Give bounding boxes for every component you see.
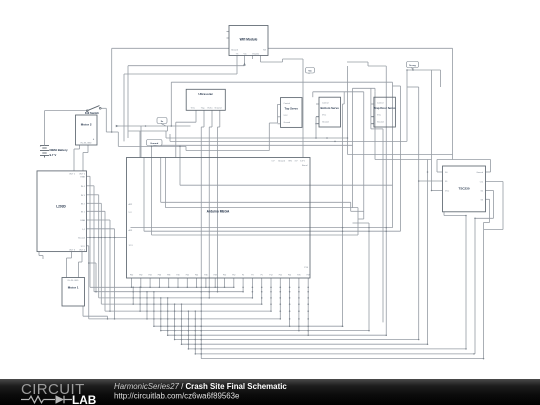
svg-text:P30: P30 (130, 275, 133, 277)
svg-text:Control: Control (322, 101, 329, 104)
svg-text:P52: P52 (232, 275, 235, 277)
svg-text:Ground: Ground (322, 122, 329, 124)
svg-text:Trap Door Servo: Trap Door Servo (374, 106, 396, 110)
svg-text:P34: P34 (148, 275, 151, 277)
svg-text:P28: P28 (307, 275, 310, 277)
svg-text:Barrel: Barrel (302, 164, 308, 167)
svg-text:P38: P38 (167, 275, 170, 277)
svg-text:Echo: Echo (208, 108, 214, 110)
svg-text:Ground: Ground (78, 237, 86, 240)
svg-text:Ground: Ground (215, 107, 223, 110)
svg-text:Wifi Module: Wifi Module (240, 38, 258, 42)
svg-text:3.3 V: 3.3 V (300, 160, 305, 162)
svg-text:12 V: 12 V (81, 246, 86, 248)
svg-text:P48: P48 (214, 275, 217, 277)
svg-text:P36: P36 (158, 275, 161, 277)
svg-text:Bottom Servo: Bottom Servo (321, 106, 340, 110)
svg-text:NiMH Battery: NiMH Battery (50, 148, 69, 152)
svg-text:P2: P2 (242, 275, 244, 277)
svg-text:P12: P12 (269, 275, 272, 277)
svg-text:VCC: VCC (191, 108, 196, 110)
svg-text:Ground: Ground (150, 143, 159, 145)
svg-text:TSC230: TSC230 (458, 186, 469, 190)
svg-text:VCC: VCC (377, 115, 382, 117)
svg-text:P26: P26 (297, 275, 300, 277)
svg-text:Arduino MEGA: Arduino MEGA (207, 210, 230, 214)
svg-text:ENA: ENA (81, 219, 86, 222)
svg-text:P44: P44 (195, 275, 198, 277)
svg-text:P24: P24 (288, 275, 291, 277)
svg-text:VIN: VIN (288, 160, 292, 162)
svg-text:Control: Control (284, 102, 291, 105)
svg-text:Motor 1: Motor 1 (68, 286, 79, 290)
svg-text:Ground: Ground (278, 159, 286, 162)
svg-text:IN+ IN- GND: IN+ IN- GND (68, 280, 79, 282)
svg-text:LAB: LAB (72, 392, 96, 405)
svg-text:P50: P50 (223, 275, 226, 277)
svg-text:P22: P22 (279, 275, 282, 277)
svg-text:Kill Switch: Kill Switch (85, 111, 99, 115)
svg-text:Ultrasonic: Ultrasonic (198, 92, 213, 96)
svg-text:Ground: Ground (231, 48, 239, 51)
svg-text:P5: P5 (261, 275, 263, 277)
svg-text:OUT 3: OUT 3 (69, 249, 76, 251)
svg-text:5v reg: 5v reg (409, 65, 416, 67)
svg-text:Motor 2: Motor 2 (81, 122, 92, 126)
svg-text:ENB: ENB (81, 176, 86, 178)
svg-text:9.7 V: 9.7 V (50, 153, 57, 157)
svg-text:OUT 4: OUT 4 (79, 249, 86, 251)
svg-text:HarmonicSeries27 / Crash Site: HarmonicSeries27 / Crash Site Final Sche… (114, 382, 287, 391)
svg-text:P40: P40 (176, 275, 179, 277)
svg-text:Enable: Enable (253, 53, 260, 55)
svg-text:VCC: VCC (445, 191, 450, 193)
svg-text:P3: P3 (251, 275, 253, 277)
svg-text:Ground: Ground (284, 122, 291, 124)
svg-text:Out: Out (480, 181, 484, 184)
svg-text:Top Servo: Top Servo (284, 106, 298, 110)
svg-text:IN+ IN- GND: IN+ IN- GND (81, 142, 92, 144)
svg-text:Ground: Ground (377, 122, 384, 124)
svg-text:OUT 2: OUT 2 (79, 173, 86, 175)
svg-text:P46: P46 (204, 275, 207, 277)
svg-text:VCC: VCC (284, 115, 289, 117)
svg-text:OUT 1: OUT 1 (69, 173, 76, 175)
svg-text:P42: P42 (186, 275, 189, 277)
svg-text:12 V: 12 V (129, 245, 134, 247)
svg-text:P32: P32 (139, 275, 142, 277)
svg-text:L293D: L293D (56, 205, 66, 209)
svg-text:http://circuitlab.com/cz6wa6f8: http://circuitlab.com/cz6wa6f89563e (114, 391, 240, 400)
svg-text:Control: Control (377, 101, 384, 104)
svg-text:VCC: VCC (322, 115, 327, 117)
svg-text:Ground: Ground (476, 172, 483, 174)
